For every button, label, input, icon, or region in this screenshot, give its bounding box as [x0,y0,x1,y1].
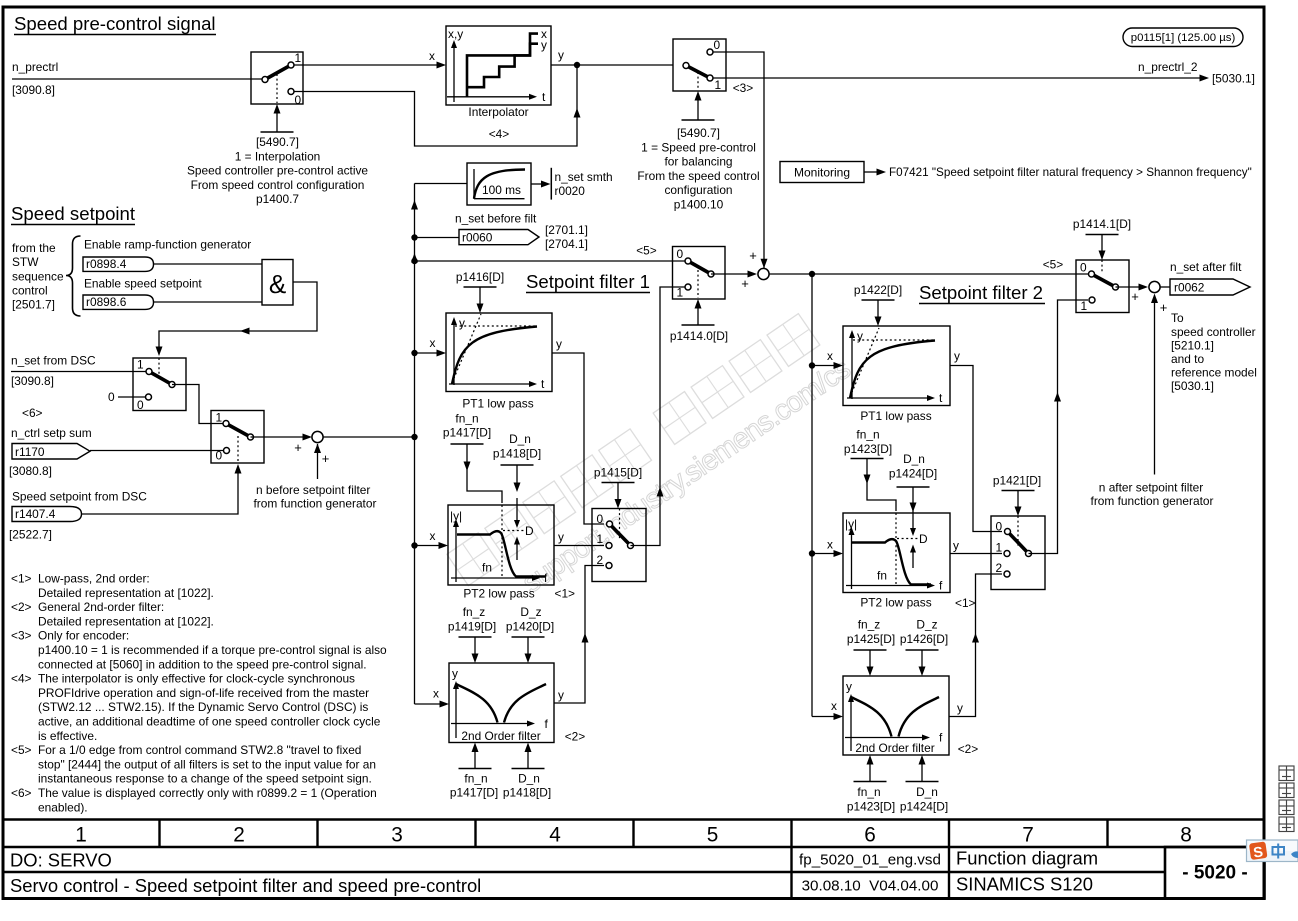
svg-text:D: D [919,532,928,546]
svg-text:and to: and to [1171,352,1204,366]
switch S2 contact 0 [707,49,713,55]
switch S9 contact 0 [1089,271,1095,277]
svg-text:y: y [556,337,562,351]
svg-text:3: 3 [391,824,403,847]
wire PT2 filter1 output to selector input 1 [554,545,604,547]
svg-text:fn_z: fn_z [858,618,881,632]
switch S5 output contact [248,434,254,440]
wire PT2 filter2 output to selector input 1 [950,553,1002,555]
svg-text:From speed control configurati: From speed control configuration [191,178,365,192]
svg-text:p1423[D]: p1423[D] [844,442,892,456]
svg-text:p1419[D]: p1419[D] [448,620,496,634]
svg-text:n after setpoint filter: n after setpoint filter [1099,481,1203,495]
svg-text:PT2 low pass: PT2 low pass [463,587,534,601]
svg-text:+: + [1131,289,1139,304]
output connector r0060 [459,230,539,245]
wire S1 contact1 to interpolator x input [294,64,437,66]
svg-text:n_prectrl: n_prectrl [12,60,58,74]
svg-text:n_set smth: n_set smth [555,170,613,184]
svg-text:5: 5 [707,824,719,847]
switch S4 dotted control line [158,358,160,381]
PT1 filter1 exponential curve [452,327,537,385]
svg-text:+: + [741,276,749,291]
svg-text:Setpoint filter 2: Setpoint filter 2 [919,282,1043,303]
svg-text:p1414.0[D]: p1414.0[D] [670,329,728,343]
selector S7 contact 2 [606,563,612,569]
svg-text:[5490.7]: [5490.7] [677,126,720,140]
PT1 filter1 dashed asymptote [455,325,537,327]
wire interpolator y to switch S2 [551,64,673,66]
switch S2 lever [686,66,710,79]
svg-text:y: y [957,701,963,715]
svg-text:D: D [525,524,534,538]
switch S4 contact 1 [146,369,152,375]
svg-text:1: 1 [75,824,87,847]
2nd order filter1 f axis [451,723,528,725]
switch S2 contact 1 [707,75,713,81]
wire PT1 filter1 output to selector input 0 [552,353,604,524]
svg-text:p1417[D]: p1417[D] [450,786,498,800]
switch S6 lever [688,261,711,274]
svg-text:1: 1 [597,532,604,546]
2nd order filter2 notch curves [851,697,892,737]
svg-text:[5210.1]: [5210.1] [1171,339,1214,353]
svg-text:sequence: sequence [12,270,64,284]
switch S4 lever [149,372,172,385]
selector S8 dotted control line [1017,516,1019,548]
svg-text:fn: fn [877,569,887,583]
footer table top line [2,818,1265,821]
smoothing block axis [473,169,475,199]
bus junction at PT2 filter2 input [809,550,815,556]
svg-text:n_prectrl_2: n_prectrl_2 [1138,60,1198,74]
switch S1 control arrow from [5490.7] [261,131,294,133]
svg-text:The interpolator is only effec: The interpolator is only effective for c… [38,672,355,686]
2nd order filter1 bottom control D_n p1418[D] [512,768,545,770]
switch S5 box [211,411,264,464]
svg-text:0: 0 [597,512,604,526]
selector S8 contact 2 [1004,571,1010,577]
PT1 filter2 t axis [847,397,928,399]
svg-text:<3>: <3> [733,81,754,95]
switch S5 contact 1 [223,421,229,427]
svg-text:p1416[D]: p1416[D] [456,270,504,284]
logo small blue shape [1291,851,1298,858]
svg-text:x: x [430,336,436,350]
svg-text:y: y [846,680,852,694]
selector S8 contact 0 [1005,529,1011,535]
wire bus to PT2 filter1 [415,545,440,547]
wire S4 output to switch S5 [172,385,223,424]
arrow up on bypass wire [574,108,581,118]
PT2 filter1 response curve [457,531,545,576]
switch S9 dotted control line [1101,260,1103,272]
footer column separators [158,820,160,848]
bus junction at PT1 filter1 input [411,350,417,356]
wire r0898.4 to AND gate [154,263,263,265]
svg-text:<3>: <3> [11,629,32,643]
wire S2 contact1 to n_prectrl_2 output [713,77,1200,79]
selector S8 contact 1 [1004,551,1010,557]
svg-text:7: 7 [1022,824,1034,847]
2nd order filter1 notch curves [456,684,498,723]
arrow monitoring to fault text [864,171,877,173]
svg-text:n_set from DSC: n_set from DSC [11,354,96,368]
logo blue character [1273,844,1285,859]
selector S7 contact 0 [607,521,613,527]
svg-text:<2>: <2> [565,730,586,744]
svg-text:<1>: <1> [555,587,576,601]
PT2 filter2 dotted fn line [895,513,897,586]
svg-text:p1414.1[D]: p1414.1[D] [1073,217,1131,231]
PT2 filter1 f axis [451,577,533,579]
switch S6 control arrow p1414.0[D] [682,324,715,326]
svg-text:Speed setpoint: Speed setpoint [11,203,136,224]
svg-text:for balancing: for balancing [664,155,732,169]
wire S2 contact0 to summing node S3 top [713,52,764,268]
svg-text:p1420[D]: p1420[D] [506,620,554,634]
svg-text:Enable speed setpoint: Enable speed setpoint [84,277,202,291]
svg-text:0: 0 [677,247,684,261]
svg-text:1 = Speed pre-control: 1 = Speed pre-control [641,140,756,154]
page number box - 5020 - [1165,847,1265,899]
svg-text:y: y [857,329,863,343]
junction at filter2 bus top [809,271,815,277]
svg-text:r1407.4: r1407.4 [15,507,56,521]
svg-text:p1418[D]: p1418[D] [503,786,551,800]
switch S6 contact 0 [685,258,691,264]
svg-text:8: 8 [1180,824,1192,847]
curly brace grouping STW signals [66,236,81,316]
svg-text:0: 0 [108,390,115,404]
PT1 filter2 dashed asymptote [853,339,935,341]
svg-text:p1418[D]: p1418[D] [493,447,541,461]
PT1 filter1 y axis [453,322,455,385]
wire r1407.4 to S5 control [82,472,239,514]
switch S9 contact 1 [1089,297,1095,303]
svg-text:2: 2 [996,561,1003,575]
wire selector S7 output up to switch S6 input 1 [631,287,686,546]
wire bus to switch S6 input 0 [415,260,686,262]
PT1 filter2 y axis [851,335,853,399]
svg-text:configuration: configuration [664,183,732,197]
selector switch S8 box [991,516,1045,590]
svg-text:+: + [1160,300,1168,315]
svg-text:r0898.6: r0898.6 [86,295,127,309]
svg-text:Detailed representation at [10: Detailed representation at [1022]. [38,586,214,600]
svg-text:D_z: D_z [520,605,541,619]
summing point 1 circle [312,431,323,442]
wire S1 contact0 bypass down and around [294,68,577,146]
switch S4 box [133,358,186,411]
interpolator block box [446,26,551,105]
svg-text:<4>: <4> [11,672,32,686]
svg-text:D_n: D_n [916,785,938,799]
svg-text:r0062: r0062 [1174,281,1205,295]
svg-text:fn_n: fn_n [857,785,880,799]
svg-text:General 2nd-order filter:: General 2nd-order filter: [38,600,164,614]
wire r0898.6 to AND gate [154,301,263,303]
svg-text:F07421 "Speed setpoint filter: F07421 "Speed setpoint filter natural fr… [889,166,1252,179]
footer table mid line [2,871,1165,873]
wire from function generator into summing point 1 [317,444,319,479]
switch S9 output contact [1113,284,1119,290]
svg-text:0: 0 [137,398,144,412]
selector S8 output contact [1026,551,1032,557]
wire bus to 2nd order filter1 [415,703,441,705]
connector bar n_set smth [550,168,552,200]
svg-text:Servo control - Speed setpoint: Servo control - Speed setpoint filter an… [10,875,481,896]
svg-text:p1400.10: p1400.10 [674,198,724,212]
switch S1 lever [265,65,291,80]
svg-text:x: x [433,687,439,701]
switch S1 dotted control line [276,74,278,103]
svg-text:y: y [558,530,564,544]
svg-text:Speed pre-control signal: Speed pre-control signal [14,13,216,34]
bus arrow up toward smoothing [411,200,418,210]
svg-text:fn_n: fn_n [464,772,487,786]
svg-text:r0060: r0060 [462,231,493,245]
switch S6 contact 1 [685,284,691,290]
switch S6 box [673,247,726,300]
svg-text:0: 0 [996,520,1003,534]
svg-text:y: y [558,48,564,62]
arrow up on 2nd order filter1 output wire [582,633,589,643]
logo orange S tile [1249,841,1268,860]
switch S2 input contact [683,63,689,69]
svg-text:p1421[D]: p1421[D] [993,474,1041,488]
svg-text:p1424[D]: p1424[D] [889,467,937,481]
svg-text:y: y [558,688,564,702]
svg-text:Enable ramp-function generator: Enable ramp-function generator [84,238,251,252]
PT2 low pass filter2 box [843,513,950,593]
wire PT1 filter2 output to selector input 0 [950,366,1002,532]
clock label bubble p0115[1] (125.00 us) [1123,28,1243,47]
2nd order filter2 box [843,676,949,755]
svg-text:Detailed representation at [10: Detailed representation at [1022]. [38,614,214,628]
interpolator horizontal axis [447,96,530,98]
svg-text:is effective.: is effective. [38,729,97,743]
svg-text:r0898.4: r0898.4 [86,257,127,271]
bus arrow up toward r0060 [411,253,418,263]
interpolator input step curve x [467,34,538,97]
binector input r0898.6 [83,295,154,309]
svg-text:+: + [322,451,330,466]
smoothing block exponential curve [474,170,525,199]
PT2 filter2 inner D arrows [912,506,914,532]
switch S4 contact 0 [146,394,152,400]
svg-text:<2>: <2> [958,742,979,756]
2nd order filter1 bottom control fn_n p1417[D] [459,768,492,770]
wire bus to PT1 filter2 [812,365,834,367]
svg-text:y: y [459,316,465,330]
svg-text:PT2 low pass: PT2 low pass [860,596,931,610]
wire S5 output to summing point 1 [251,436,304,438]
svg-text:0: 0 [1080,261,1087,275]
svg-text:0: 0 [714,38,721,52]
svg-text:x,y: x,y [448,27,463,41]
svg-text:D_n: D_n [518,772,540,786]
svg-text:1: 1 [677,286,684,300]
svg-text:p0115[1] (125.00 µs): p0115[1] (125.00 µs) [1131,32,1236,44]
svg-text:stop" [2444] the output of all: stop" [2444] the output of all filters i… [38,757,376,771]
svg-text:4: 4 [549,824,561,847]
svg-text:For a 1/0 edge from control co: For a 1/0 edge from control command STW2… [38,743,361,757]
arrow up on S7 output wire [657,487,664,497]
switch S5 dotted control line [237,436,239,462]
wire bus to PT2 filter2 [812,553,834,555]
PT1 filter2 dashed tangent [850,328,879,397]
selector S7 output contact [628,543,634,549]
svg-text:1: 1 [1081,299,1088,313]
PT2 filter1 dotted fn line [501,505,503,578]
wire summing point 2 output to filter2 area [769,273,1088,275]
svg-text:x: x [827,349,833,363]
svg-text:100 ms: 100 ms [482,183,521,197]
svg-text:x: x [827,538,833,552]
svg-text:p1425[D]: p1425[D] [847,632,895,646]
wire bus to r0060 [415,237,460,239]
svg-text:SINAMICS S120: SINAMICS S120 [956,874,1093,895]
svg-text:D_n: D_n [509,432,531,446]
arrow left on AND output wire [240,328,250,335]
wire n after setpoint filter into summing point 3 [1154,297,1156,475]
svg-text:Low-pass, 2nd order:: Low-pass, 2nd order: [38,572,150,586]
svg-text:p1426[D]: p1426[D] [900,632,948,646]
watermark diagonal [447,308,856,626]
svg-text:D_n: D_n [903,452,925,466]
svg-text:<2>: <2> [11,600,32,614]
PT2 filter2 response curve [852,539,931,584]
switch S6 dotted control line [697,270,699,298]
svg-text:STW: STW [12,255,39,269]
svg-text:+: + [294,440,302,455]
PT1 low pass filter1 box [446,313,552,392]
svg-text:p1400.10 = 1 is recommended if: p1400.10 = 1 is recommended if a torque … [38,643,387,657]
svg-text:p1422[D]: p1422[D] [854,283,902,297]
svg-text:0: 0 [295,93,302,107]
svg-text:p1423[D]: p1423[D] [847,800,895,814]
switch S9 lever [1092,274,1116,287]
svg-text:Setpoint filter 1: Setpoint filter 1 [526,271,650,292]
svg-text:1: 1 [137,358,144,372]
arrow up on 2nd order filter2 output wire [972,633,979,643]
svg-text:[3080.8]: [3080.8] [9,464,52,478]
svg-text:n_ctrl setp sum: n_ctrl setp sum [11,426,92,440]
svg-text:2nd Order filter: 2nd Order filter [461,729,540,743]
svg-text:<1>: <1> [11,572,32,586]
PT2 filter1 inner D arrows [516,498,518,524]
svg-text:y: y [541,38,547,52]
main setpoint bus vertical [414,184,416,705]
svg-text:PT1 low pass: PT1 low pass [860,409,931,423]
svg-text:[5030.1]: [5030.1] [1212,72,1255,86]
svg-text:2: 2 [597,553,604,567]
switch S2 balancing select box [673,39,726,91]
svg-text:[5030.1]: [5030.1] [1171,379,1214,393]
svg-text:[2501.7]: [2501.7] [12,298,55,312]
wire S6 output to summing point 2 [711,273,748,275]
svg-text:0: 0 [216,449,223,463]
svg-text:p1415[D]: p1415[D] [594,466,642,480]
svg-text:<5>: <5> [1043,258,1064,272]
svg-text:from function generator: from function generator [1091,494,1214,508]
PT1 filter2 exponential curve [850,341,935,399]
svg-text:1: 1 [996,541,1003,555]
wire 2nd order filter1 output to selector input 2 [554,566,604,704]
switch S5 contact 0 [224,448,230,454]
svg-text:<5>: <5> [636,244,657,258]
svg-text:fn: fn [482,561,492,575]
wire bus to smoothing block [415,183,468,185]
svg-text:Function diagram: Function diagram [956,848,1098,869]
svg-text:Speed setpoint from DSC: Speed setpoint from DSC [12,490,147,504]
filter2 input bus vertical [811,274,813,717]
svg-text:[2704.1]: [2704.1] [545,237,588,251]
wire 2nd order filter2 output to selector input 2 [949,574,1002,717]
PT1 low pass filter2 box [843,326,950,406]
PT2 low pass filter1 box [448,505,554,585]
2nd order filter2 bottom control D_n p1424[D] [906,781,939,783]
interpolator vertical axis [453,45,455,102]
wire n_prectrl to switch S1 [12,78,262,80]
svg-text:x: x [429,49,435,63]
switch S2 control arrow from [5490.7] [682,119,715,121]
svg-text:x: x [831,699,837,713]
wire r1170 to S5 contact 0 [90,450,223,452]
svg-text:Speed controller pre-control a: Speed controller pre-control active [187,164,368,178]
selector S7 contact 1 [606,543,612,549]
PT1 filter1 t axis [449,383,530,385]
svg-text:fn_z: fn_z [463,605,486,619]
svg-text:1: 1 [715,78,722,92]
wire summing point 1 to bus [323,436,414,438]
output arrow n_prectrl_2 [1200,75,1210,82]
summing point 3 circle [1149,281,1160,292]
interpolator staircase curve y [467,44,538,87]
svg-text:r1170: r1170 [15,445,45,459]
wire stub 0 into S4 [118,396,145,398]
svg-text:from the: from the [12,241,56,255]
svg-text:1: 1 [216,411,223,425]
svg-text:Monitoring: Monitoring [794,166,850,180]
svg-text:[3090.8]: [3090.8] [11,374,54,388]
svg-text:D_z: D_z [916,618,937,632]
svg-text:y: y [452,667,458,681]
svg-text:To: To [1171,311,1184,325]
monitoring block box [780,162,864,183]
wire AND gate output to switch S4 control [159,282,317,348]
svg-text:30.08.10 V04.04.00: 30.08.10 V04.04.00 [802,878,939,895]
summing point 2 circle [758,268,769,279]
wire summing point 3 to r0062 [1160,286,1170,288]
selector S7 dotted control line [619,509,621,541]
svg-text:&: & [269,269,286,299]
svg-text:n_set before filt: n_set before filt [455,212,537,226]
svg-text:control: control [12,284,48,298]
smoothing block 100 ms box [467,163,531,205]
binector input r1407.4 [12,507,82,522]
svg-text:6: 6 [864,824,876,847]
svg-text:Only for encoder:: Only for encoder: [38,629,129,643]
input-method logo panel [1247,840,1298,862]
bus junction at bypass wire to S3 [411,258,417,264]
svg-text:The value is displayed correct: The value is displayed correctly only wi… [38,786,377,800]
switch S2 dotted control line [697,72,699,90]
output connector r0062 [1170,279,1250,295]
connector output r1170 [12,444,90,460]
svg-text:n before setpoint filter: n before setpoint filter [256,483,370,497]
